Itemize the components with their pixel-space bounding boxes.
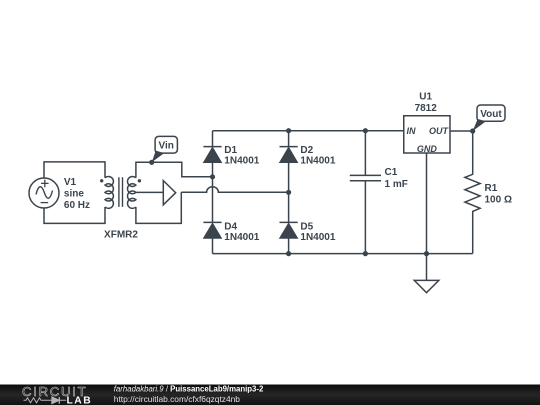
wire V1 bottom to primary [44,207,105,223]
footer logo glyph [24,397,67,404]
label D5 [300,222,335,244]
flag Vout [473,105,505,131]
svg-text:Vin: Vin [159,140,174,151]
label D1 [224,145,259,167]
transformer XFMR2 primary coil [105,176,113,208]
svg-text:7812: 7812 [415,103,438,114]
junction dot bottom rail GND [424,251,429,256]
svg-text:D5: D5 [300,222,313,233]
footer url line [114,394,240,404]
node Vout junction dot [470,128,475,133]
svg-text:http://circuitlab.com/cfxf6qzq: http://circuitlab.com/cfxf6qzqtz4nb [114,394,240,404]
label Vin [159,140,174,151]
secondary phase dot [138,179,141,182]
wire secondary bottom loop [136,192,181,223]
svg-text:U1: U1 [419,92,432,103]
svg-text:sine: sine [64,189,84,200]
wire middle with hop to node B [181,187,288,193]
junction dot top rail D2 [286,128,291,133]
svg-text:Vout: Vout [480,109,502,120]
footer logo CIRCUIT [22,384,87,399]
footer logo LAB [67,395,93,405]
svg-text:V1: V1 [64,177,77,188]
junction dot bottom rail D5 [286,251,291,256]
svg-text:LAB: LAB [67,395,93,405]
capacitor C1 [350,131,381,254]
label D4 [224,222,259,244]
pin label GND [417,144,438,154]
junction dot top rail C1 [363,128,368,133]
label C1 [385,167,408,190]
label V1 [64,177,90,211]
svg-text:100 Ω: 100 Ω [485,194,512,205]
diode D2 [280,131,298,193]
top rail [213,130,404,132]
svg-text:farhadakbari.9 / PuissanceLab9: farhadakbari.9 / PuissanceLab9/manip3-2 [114,385,264,394]
node A junction dot [210,174,215,179]
label D2 [300,145,335,167]
svg-text:D1: D1 [224,145,237,156]
svg-text:1 mF: 1 mF [385,179,408,190]
svg-text:1N4001: 1N4001 [300,156,335,167]
svg-text:GND: GND [417,144,438,154]
voltage source V1 [29,178,59,208]
label U1 [415,92,438,115]
label XFMR2 [104,229,138,240]
wire secondary top to node A [136,162,213,178]
regulator U1 box [404,116,450,153]
wire U1 GND lead [426,153,428,280]
svg-text:OUT: OUT [429,126,450,136]
diode D1 [203,131,221,177]
pin label OUT [429,126,450,136]
footer credit line [114,385,264,394]
center tap arrow [163,181,175,205]
svg-text:D4: D4 [224,222,237,233]
junction dot bottom rail C1 [363,251,368,256]
svg-text:XFMR2: XFMR2 [104,229,138,240]
transformer core [119,177,123,207]
label Vout [480,109,502,120]
svg-text:1N4001: 1N4001 [224,156,259,167]
flag Vin [152,136,178,162]
primary phase dot [100,179,103,182]
center tap lead [136,191,163,193]
node B junction dot [286,190,291,195]
svg-text:D2: D2 [300,145,313,156]
ground [414,280,439,292]
svg-text:60 Hz: 60 Hz [64,200,90,211]
footer bar [0,385,540,405]
wire V1 top to primary [44,162,105,178]
transformer XFMR2 secondary coil [127,176,135,208]
svg-text:R1: R1 [485,183,498,194]
label R1 [485,183,512,205]
wire U1 OUT to Vout node [450,130,473,132]
resistor R1 [465,131,480,254]
node Vin junction dot [149,160,154,165]
pin label IN [407,126,417,136]
svg-text:IN: IN [407,126,417,136]
diode D4 [203,177,221,254]
svg-text:C1: C1 [385,167,398,178]
svg-text:1N4001: 1N4001 [300,232,335,243]
bottom rail [213,253,473,255]
svg-text:1N4001: 1N4001 [224,232,259,243]
diode D5 [280,192,298,253]
